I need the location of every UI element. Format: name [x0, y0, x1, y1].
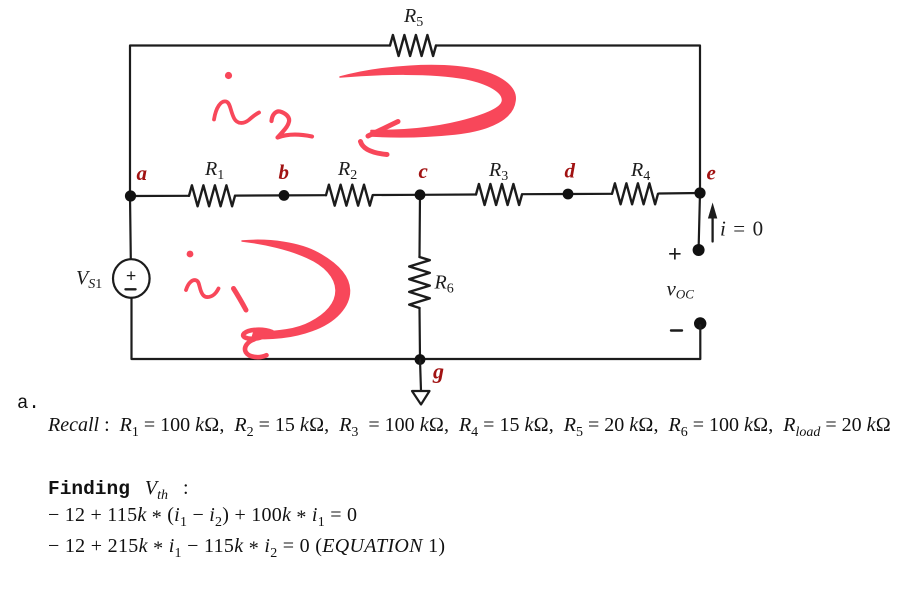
wire c down to R6: [418, 195, 421, 257]
red clockwise arrow swoosh (mesh 1): [242, 240, 350, 338]
resistor R3: [476, 184, 522, 205]
wire R5 to top-right corner down to node e: [436, 46, 700, 194]
node g: [415, 354, 426, 365]
wire R1 to b: [235, 194, 284, 196]
wire R3 to d: [522, 193, 568, 195]
minus sign of voc: [671, 329, 682, 331]
open-circuit terminal top dot: [693, 244, 705, 256]
svg-text:R6: R6: [434, 272, 454, 297]
svg-text:R4: R4: [630, 159, 650, 184]
svg-text:+: +: [126, 266, 136, 286]
equation 1a: [48, 504, 357, 527]
equation 1b: [48, 535, 445, 558]
red mesh current i2 subscript 2: [272, 111, 313, 137]
node e: [694, 187, 705, 198]
svg-text:R5: R5: [403, 5, 423, 30]
svg-text:R1: R1: [204, 158, 224, 183]
ground symbol: [412, 391, 430, 405]
svg-text:R3: R3: [488, 159, 508, 184]
wire source down to bottom-left corner: [132, 298, 701, 359]
svg-text:i = 0: i = 0: [720, 217, 764, 241]
resistor R6: [409, 257, 430, 308]
wire R6 to ground node g: [418, 308, 421, 359]
resistor R4: [612, 183, 658, 204]
wire e down to open terminal: [699, 193, 700, 249]
red loop tail of mesh-1 swoosh: [243, 330, 272, 339]
red clockwise arrow swoosh (mesh 2): [340, 66, 515, 137]
svg-text:VS1: VS1: [76, 267, 102, 292]
svg-text:b: b: [279, 160, 290, 184]
svg-text:vOC: vOC: [667, 277, 695, 302]
svg-text:d: d: [565, 159, 576, 183]
wire bottom terminal to bottom-right corner: [699, 325, 701, 359]
node d: [563, 189, 574, 200]
finding vth line: [48, 477, 189, 500]
node b: [279, 190, 290, 201]
svg-text:e: e: [707, 161, 716, 185]
red arrowhead of mesh-2 swoosh: [368, 122, 398, 137]
resistor R1: [189, 185, 235, 206]
wire d to R4: [568, 193, 612, 195]
node a: [125, 190, 136, 201]
wire R2 to c: [373, 194, 420, 196]
wire a to R1: [130, 195, 189, 197]
red mesh current i1 handwriting dot: [187, 251, 194, 258]
wire b to R2: [284, 194, 326, 196]
wire R4 to e: [659, 192, 700, 195]
part label a.: [17, 392, 40, 414]
resistor R5: [390, 35, 436, 56]
svg-text:g: g: [432, 359, 444, 384]
svg-text:+: +: [668, 241, 682, 267]
voltage source VS1: [113, 259, 150, 298]
open-circuit terminal bottom dot: [694, 317, 706, 329]
recall line: [48, 414, 891, 437]
wire top-left loop (a to R5): [130, 46, 390, 197]
resistor R2: [326, 185, 373, 206]
svg-text:a: a: [137, 161, 148, 185]
wire left column: a down to source: [129, 196, 132, 260]
svg-text:c: c: [419, 159, 429, 183]
current arrow i=0: [711, 218, 713, 242]
node c: [415, 189, 426, 200]
red mesh current i1 handwriting body: [186, 280, 219, 297]
red mesh current i2 handwriting body: [214, 101, 259, 123]
red mesh current i1 subscript 1: [234, 289, 247, 311]
svg-text:R2: R2: [337, 158, 357, 183]
red mesh current i2 handwriting dot: [225, 72, 232, 79]
ground stem: [420, 360, 421, 392]
wire c to R3: [420, 193, 476, 196]
